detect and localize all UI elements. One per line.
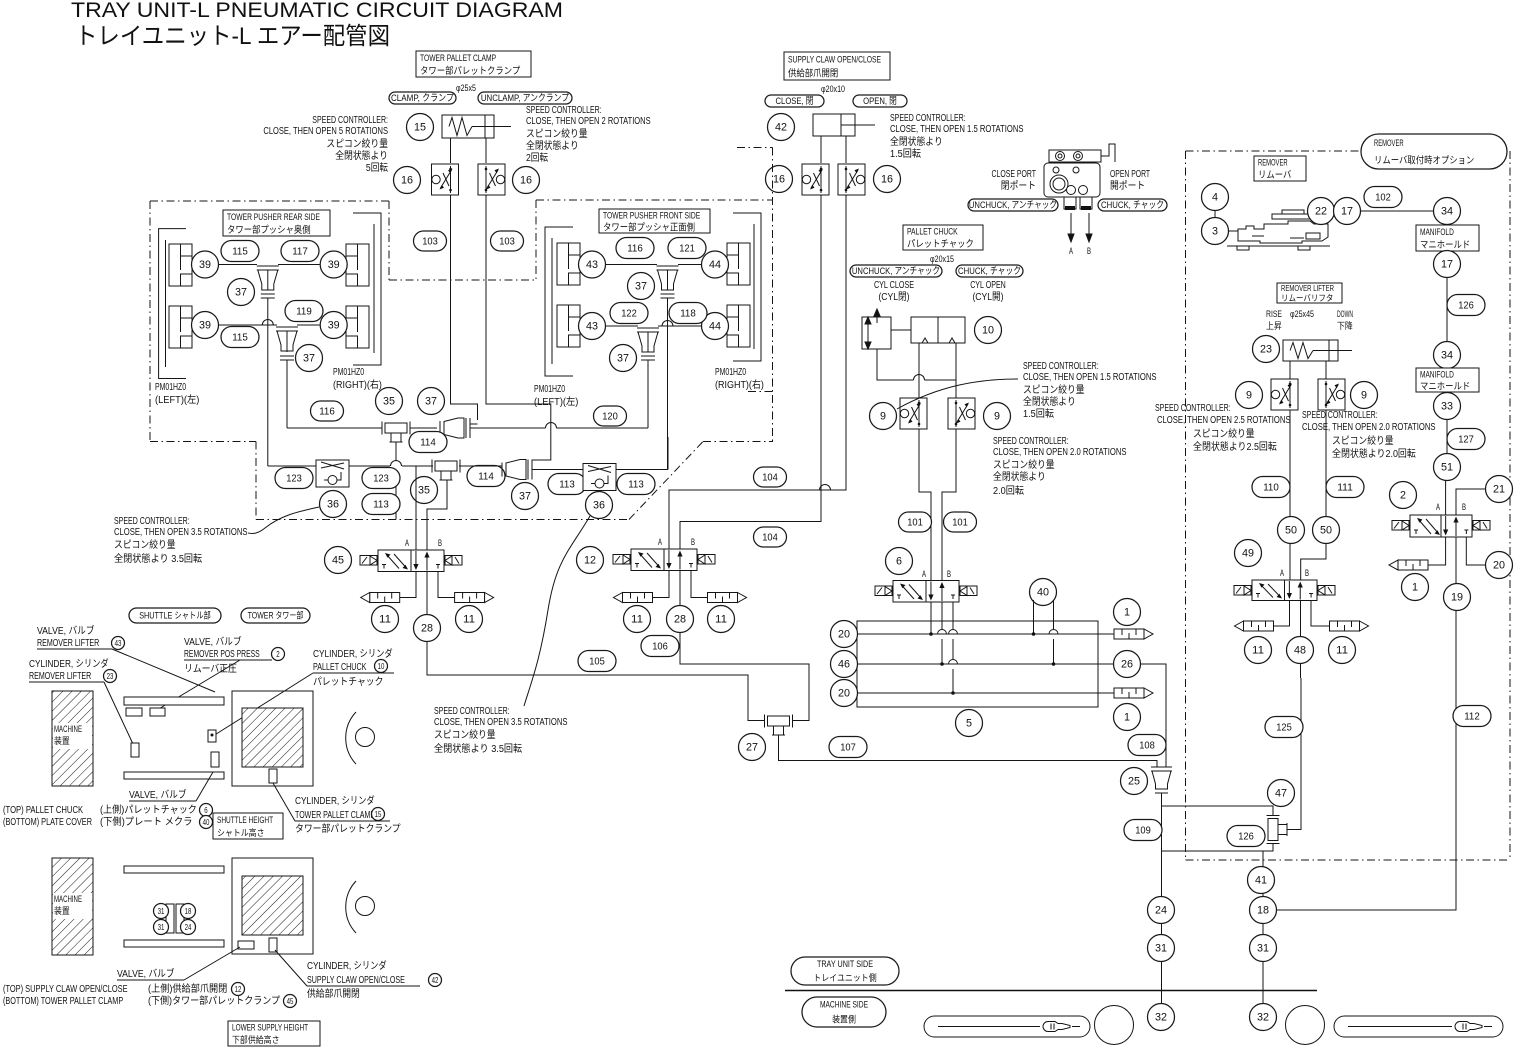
wire 40 left [1033, 600, 1035, 634]
oval 112 [1453, 706, 1491, 727]
svg-text:45: 45 [332, 555, 344, 567]
svg-text:123: 123 [286, 473, 302, 485]
svg-text:φ20x15: φ20x15 [930, 254, 954, 264]
oval 101 [899, 512, 932, 532]
shuttle bottom bar [124, 772, 224, 779]
svg-text:44: 44 [709, 259, 721, 271]
balloon 28 [667, 606, 694, 633]
rotary actuator drawing [1049, 150, 1101, 162]
svg-text:TOWER PUSHER FRONT SIDE: TOWER PUSHER FRONT SIDE [603, 210, 700, 221]
svg-text:37: 37 [617, 353, 629, 365]
svg-text:108: 108 [1139, 740, 1155, 752]
wire 3 to remover [1228, 230, 1238, 232]
balloon 32 [1250, 1004, 1277, 1031]
svg-text:9: 9 [880, 411, 886, 423]
wire 17 to 34 [1361, 210, 1434, 212]
svg-text:116: 116 [319, 406, 335, 418]
tower valve 2 [238, 941, 254, 949]
cylinder supply claw [813, 114, 855, 136]
balloon 42 [768, 114, 795, 141]
svg-text:27: 27 [746, 742, 758, 754]
svg-text:全閉状態より 3.5回転: 全閉状態より 3.5回転 [434, 742, 522, 755]
svg-text:A: A [658, 537, 662, 547]
svg-text:34: 34 [1441, 350, 1453, 362]
svg-text:REMOVER POS PRESS: REMOVER POS PRESS [184, 649, 260, 660]
svg-text:UNCHUCK, アンチャック: UNCHUCK, アンチャック [852, 266, 940, 277]
wire tee1 stub down [395, 442, 397, 461]
svg-text:43: 43 [586, 259, 598, 271]
svg-text:CHUCK, チャック: CHUCK, チャック [1101, 200, 1164, 211]
svg-text:(上側)供給部爪開閉: (上側)供給部爪開閉 [148, 982, 227, 995]
svg-text:104: 104 [762, 472, 778, 484]
svg-text:17: 17 [1341, 206, 1353, 218]
svg-text:UNCLAMP, アンクランプ: UNCLAMP, アンクランプ [481, 93, 570, 104]
svg-text:1: 1 [1124, 607, 1130, 619]
svg-text:35: 35 [418, 485, 430, 497]
balloon 11 [708, 606, 735, 633]
svg-text:OPEN PORT: OPEN PORT [1110, 169, 1150, 180]
svg-text:101: 101 [907, 517, 923, 529]
small balloon 24 [181, 920, 196, 935]
circle right [1286, 1006, 1325, 1045]
svg-text:SPEED CONTROLLER:: SPEED CONTROLLER: [1302, 410, 1378, 421]
svg-text:REMOVER: REMOVER [1258, 158, 1288, 169]
svg-text:(LEFT)(左): (LEFT)(左) [534, 395, 578, 408]
small balloon 2 [272, 648, 285, 661]
wire hop row1 [546, 423, 557, 429]
svg-text:RISE: RISE [1266, 309, 1282, 319]
balloon 17 [1434, 251, 1461, 278]
svg-text:TOWER タワー部: TOWER タワー部 [248, 610, 304, 621]
svg-text:11: 11 [463, 614, 475, 626]
svg-text:119: 119 [296, 306, 312, 318]
leader to balloon 9 [897, 379, 1018, 409]
wire manifold row3 [844, 692, 1114, 694]
dashed boundary remover [1186, 150, 1511, 152]
balloon 22 [1308, 198, 1335, 225]
speed controller 16 right [478, 164, 505, 195]
leader curve 36 right [524, 516, 590, 706]
svg-text:CYL CLOSE: CYL CLOSE [874, 280, 914, 291]
svg-text:115: 115 [232, 246, 248, 258]
oval 103 [414, 231, 447, 251]
balloon 11 [456, 606, 483, 633]
tower arc 1 [356, 728, 375, 747]
tower frame 2 [232, 858, 313, 954]
svg-text:トレイユニット-L エアー配管図: トレイユニット-L エアー配管図 [75, 23, 390, 50]
small balloon 18 [181, 904, 196, 919]
svg-text:115: 115 [232, 332, 248, 344]
tower cylinder 2 [269, 938, 277, 952]
balloon 1 [1114, 704, 1141, 731]
wire lifter right [1325, 361, 1327, 379]
oval 123 [275, 468, 313, 489]
balloon 35 [376, 388, 403, 415]
shuttle small rect 2 [150, 708, 165, 716]
wire valve2 B to 21 [1456, 489, 1486, 515]
svg-text:16: 16 [773, 174, 785, 186]
oval CLOSE [765, 95, 824, 107]
svg-text:17: 17 [1441, 259, 1453, 271]
svg-text:35: 35 [383, 396, 395, 408]
small balloon 12 [232, 983, 245, 996]
svg-text:B: B [947, 569, 951, 579]
balloon 27 [739, 734, 766, 761]
svg-text:42: 42 [432, 976, 439, 985]
svg-text:TRAY UNIT-L PNEUMATIC CIRCUIT: TRAY UNIT-L PNEUMATIC CIRCUIT DIAGRAM [71, 0, 563, 22]
svg-text:CLOSE, 閉: CLOSE, 閉 [776, 96, 814, 107]
svg-text:103: 103 [422, 236, 438, 248]
oval 118 [669, 303, 707, 324]
svg-text:31: 31 [158, 923, 165, 932]
balloon 36 [320, 491, 347, 518]
svg-text:49: 49 [1242, 548, 1254, 560]
svg-text:タワー部プッシャ正面側: タワー部プッシャ正面側 [603, 221, 695, 233]
oval 125 [1265, 717, 1303, 738]
shuttle2 top bar [124, 866, 224, 873]
svg-text:PM01HZ0: PM01HZ0 [715, 367, 746, 378]
svg-text:SPEED CONTROLLER:: SPEED CONTROLLER: [526, 105, 602, 116]
svg-text:φ25x45: φ25x45 [1290, 309, 1314, 319]
wire loop top [1162, 793, 1274, 815]
svg-text:5回転: 5回転 [366, 162, 388, 174]
tee fitting 126 [1268, 819, 1278, 841]
balloon 16 [394, 167, 421, 194]
balloon 37 [512, 483, 539, 510]
svg-text:MANIFOLD: MANIFOLD [1420, 370, 1454, 381]
cylinder tower pallet clamp [442, 115, 494, 138]
svg-text:31: 31 [158, 907, 165, 916]
wire 18 to 112 line [1277, 611, 1457, 911]
wire 101 right [942, 429, 956, 581]
balloon 51 [1434, 454, 1461, 481]
svg-text:26: 26 [1121, 659, 1133, 671]
oval 121 [668, 238, 706, 259]
oval 116 [311, 401, 344, 421]
svg-text:スピコン絞り量: スピコン絞り量 [1332, 434, 1394, 447]
svg-text:全閉状態より: 全閉状態より [890, 135, 943, 148]
svg-text:37: 37 [425, 396, 437, 408]
balloon 11 [624, 606, 651, 633]
bottom pill right [1334, 1016, 1503, 1037]
balloon 48 [1287, 637, 1314, 664]
balloon 20 [1486, 552, 1513, 579]
wye fitting front 2 [637, 328, 659, 332]
svg-text:CLOSE, THEN OPEN 2.5 ROTATIONS: CLOSE, THEN OPEN 2.5 ROTATIONS [1157, 415, 1291, 426]
oval 114 [409, 432, 447, 453]
oval UNCHUCK [850, 265, 942, 277]
svg-text:閉ポート: 閉ポート [1001, 180, 1036, 192]
svg-text:タワー部パレットクランプ: タワー部パレットクランプ [420, 65, 521, 77]
svg-text:(BOTTOM) PLATE COVER: (BOTTOM) PLATE COVER [3, 817, 92, 828]
wire hop front [662, 321, 673, 327]
oval CLAMP [389, 92, 456, 104]
wire 4-3 [1214, 210, 1216, 218]
oval 111 [1326, 477, 1364, 498]
svg-text:CYLINDER, シリンダ: CYLINDER, シリンダ [29, 657, 109, 670]
svg-text:SPEED CONTROLLER:: SPEED CONTROLLER: [1023, 361, 1099, 372]
svg-text:43: 43 [586, 321, 598, 333]
svg-text:リムーバ正圧: リムーバ正圧 [184, 663, 237, 675]
wire 41 line [1262, 851, 1264, 1029]
small balloon 43 [112, 637, 125, 650]
balloon 2 [1390, 482, 1417, 509]
arrow A [1070, 213, 1072, 238]
wire valve2 port to 20 [1466, 537, 1485, 565]
svg-text:CLOSE PORT: CLOSE PORT [992, 169, 1037, 180]
svg-text:トレイユニット側: トレイユニット側 [813, 972, 876, 983]
oval 113 [362, 494, 400, 515]
wire cyl15-left down to wye1 [451, 195, 478, 420]
svg-text:DOWN: DOWN [1337, 309, 1353, 319]
svg-text:10: 10 [378, 662, 385, 671]
wye fitting front 1 [657, 266, 679, 270]
svg-text:16: 16 [401, 175, 413, 187]
balloon 39 [320, 312, 347, 339]
svg-text:下降: 下降 [1337, 320, 1353, 331]
wire rear row1 [219, 264, 257, 266]
svg-text:20: 20 [1493, 560, 1505, 572]
wire 26 to Y fitting [1141, 664, 1167, 767]
leader curve 36 left [248, 507, 319, 534]
wire valve12 exhaust right [691, 571, 708, 598]
wire rear Y2 down [286, 360, 288, 428]
svg-text:PALLET CHUCK: PALLET CHUCK [907, 227, 958, 238]
speed controller 9 lifter right [1318, 379, 1345, 410]
svg-text:SPEED CONTROLLER:: SPEED CONTROLLER: [114, 516, 190, 527]
svg-text:SPEED CONTROLLER:: SPEED CONTROLLER: [993, 436, 1069, 447]
oval CHUCK [956, 265, 1023, 277]
svg-text:マニホールド: マニホールド [1420, 240, 1470, 251]
cylinder rear R2 [346, 306, 369, 348]
wye fitting 25 [1151, 767, 1172, 771]
svg-text:40: 40 [1037, 587, 1049, 599]
svg-text:SHUTTLE シャトル部: SHUTTLE シャトル部 [139, 610, 211, 621]
cylinder front L1 [557, 243, 580, 285]
balloon 39 [320, 251, 347, 278]
balloon 34 [1434, 198, 1461, 225]
wire manifold row2 [844, 663, 1127, 665]
bottom pill left [924, 1016, 1090, 1037]
svg-text:(LEFT)(左): (LEFT)(左) [155, 393, 199, 406]
svg-text:CHUCK, チャック: CHUCK, チャック [958, 266, 1021, 277]
svg-text:101: 101 [952, 517, 968, 529]
svg-text:VALVE, バルブ: VALVE, バルブ [117, 967, 175, 980]
svg-text:CLAMP, クランプ: CLAMP, クランプ [391, 93, 454, 104]
svg-text:9: 9 [994, 411, 1000, 423]
svg-text:シャトル高さ: シャトル高さ [217, 827, 265, 838]
balloon 47 [1268, 780, 1295, 807]
svg-text:リムーバリフタ: リムーバリフタ [1281, 293, 1333, 303]
balloon 16 [766, 166, 793, 193]
wire cyl15 right port [485, 138, 487, 163]
svg-text:126: 126 [1458, 300, 1474, 312]
svg-text:A: A [405, 538, 409, 548]
svg-text:19: 19 [1451, 592, 1463, 604]
small balloon 40 [200, 816, 213, 829]
svg-text:116: 116 [627, 243, 643, 255]
svg-text:CLOSE, THEN OPEN 2.0 ROTATIONS: CLOSE, THEN OPEN 2.0 ROTATIONS [993, 447, 1127, 458]
svg-text:9: 9 [1361, 390, 1367, 402]
bracket front right [733, 213, 761, 361]
oval REMOVER option [1361, 134, 1507, 169]
svg-text:109: 109 [1135, 825, 1151, 837]
silencer v2 [1398, 560, 1428, 570]
valve V49 [1252, 580, 1317, 601]
wire claw left [820, 136, 822, 163]
balloon 20 [831, 621, 858, 648]
separator line [785, 990, 1317, 992]
balloon 24 [1148, 897, 1175, 924]
balloon 34 [1434, 342, 1461, 369]
svg-text:CLOSE, THEN OPEN 3.5 ROTATIONS: CLOSE, THEN OPEN 3.5 ROTATIONS [114, 527, 248, 538]
svg-text:117: 117 [292, 246, 308, 258]
balloon 43 [579, 313, 606, 340]
svg-text:5: 5 [966, 718, 972, 730]
speed controller 9 left [900, 398, 927, 429]
svg-text:UNCHUCK, アンチャック: UNCHUCK, アンチャック [969, 200, 1057, 211]
svg-text:CLOSE, THEN OPEN 3.5 ROTATIONS: CLOSE, THEN OPEN 3.5 ROTATIONS [434, 717, 568, 728]
svg-text:B: B [1462, 502, 1466, 512]
svg-text:(BOTTOM) TOWER PALLET CLAMP: (BOTTOM) TOWER PALLET CLAMP [3, 996, 123, 1007]
svg-text:MACHINE: MACHINE [54, 724, 82, 734]
valve V6 [893, 581, 959, 603]
svg-text:B: B [691, 537, 695, 547]
oval UNCLAMP [478, 92, 572, 104]
wire main supply line [779, 735, 1158, 767]
balloon 9 [1351, 382, 1378, 409]
wye fitting row2 [502, 463, 506, 477]
balloon 39 [192, 312, 219, 339]
svg-text:PM01HZ0: PM01HZ0 [155, 382, 186, 393]
svg-text:REMOVER: REMOVER [1374, 138, 1404, 149]
svg-text:下部供給高さ: 下部供給高さ [232, 1034, 280, 1045]
svg-text:2回転: 2回転 [526, 152, 548, 164]
svg-text:47: 47 [1275, 788, 1287, 800]
wire 33 to 51 [1446, 420, 1448, 454]
wire valve2 19 line [1455, 537, 1457, 584]
svg-text:(TOP) SUPPLY CLAW OPEN/CLOSE: (TOP) SUPPLY CLAW OPEN/CLOSE [3, 984, 128, 995]
svg-text:CLOSE, THEN OPEN 5 ROTATIONS: CLOSE, THEN OPEN 5 ROTATIONS [263, 126, 388, 137]
dashed boundary tower pusher front [536, 199, 772, 201]
svg-text:全閉状態より: 全閉状態より [526, 139, 579, 152]
svg-text:スピコン絞り量: スピコン絞り量 [434, 728, 496, 741]
balloon 11 [1329, 637, 1356, 664]
oval 115 [221, 241, 259, 262]
silencer left v49 [1244, 621, 1274, 631]
wire claw A down to valve12 B [680, 195, 821, 549]
silencer manifold bottom [1114, 688, 1144, 698]
svg-text:104: 104 [762, 532, 778, 544]
svg-text:リムーバ取付時オプション: リムーバ取付時オプション [1374, 156, 1474, 167]
oval TRAY UNIT SIDE [791, 957, 899, 985]
svg-text:20: 20 [838, 688, 850, 700]
svg-text:全閉状態より: 全閉状態より [993, 470, 1046, 483]
svg-text:23: 23 [1260, 344, 1272, 356]
oval 101 [944, 512, 977, 532]
tee fitting row2 [435, 461, 457, 471]
svg-text:4: 4 [1212, 192, 1218, 204]
shuttle valve small [131, 743, 139, 757]
svg-text:スピコン絞り量: スピコン絞り量 [1023, 383, 1085, 396]
oval UNCHUCK top [968, 199, 1058, 211]
svg-text:34: 34 [1441, 206, 1453, 218]
svg-text:REMOVER LIFTER: REMOVER LIFTER [37, 638, 99, 649]
speed controller 9 lifter left [1271, 379, 1298, 410]
speed controller 113 [583, 464, 616, 491]
label box LOWER SUPPLY HEIGHT [228, 1021, 320, 1046]
wire valve45 exhaust right [438, 572, 455, 598]
label box SUPPLY CLAW OPEN/CLOSE [784, 52, 890, 80]
oval 126 [1227, 826, 1265, 847]
svg-text:21: 21 [1493, 484, 1505, 496]
svg-text:43: 43 [115, 639, 122, 648]
oval 127 [1447, 429, 1485, 450]
svg-text:36: 36 [327, 499, 339, 511]
svg-text:28: 28 [674, 614, 686, 626]
wire row1 horizontal [287, 427, 382, 429]
svg-text:φ20x10: φ20x10 [821, 84, 845, 94]
svg-text:113: 113 [559, 479, 575, 491]
svg-text:10: 10 [982, 325, 994, 337]
small balloon 6 [200, 804, 213, 817]
balloon 39 [192, 251, 219, 278]
svg-text:CLOSE, THEN OPEN 2.0 ROTATIONS: CLOSE, THEN OPEN 2.0 ROTATIONS [1302, 422, 1436, 433]
svg-text:パレットチャック: パレットチャック [313, 676, 383, 688]
svg-text:32: 32 [1155, 1012, 1167, 1024]
svg-text:102: 102 [1375, 192, 1391, 204]
speed controller 16 claw right [838, 164, 865, 195]
svg-text:LOWER SUPPLY HEIGHT: LOWER SUPPLY HEIGHT [232, 1023, 308, 1033]
oval 115 [221, 327, 259, 348]
oval 107 [829, 737, 867, 758]
svg-text:VALVE, バルブ: VALVE, バルブ [184, 635, 242, 648]
svg-text:A: A [1069, 246, 1073, 256]
balloon 32 [1148, 1004, 1175, 1031]
svg-text:REMOVER LIFTER: REMOVER LIFTER [29, 671, 91, 682]
svg-text:2.0回転: 2.0回転 [993, 485, 1024, 497]
svg-text:SHUTTLE HEIGHT: SHUTTLE HEIGHT [217, 815, 273, 825]
svg-text:(RIGHT)(右): (RIGHT)(右) [715, 378, 764, 391]
valve V12 [631, 549, 697, 571]
svg-text:TOWER PUSHER REAR SIDE: TOWER PUSHER REAR SIDE [227, 212, 320, 223]
svg-text:9: 9 [1246, 390, 1252, 402]
label box TOWER PUSHER FRONT SIDE [599, 209, 710, 233]
svg-text:CLOSE, THEN OPEN 2 ROTATIONS: CLOSE, THEN OPEN 2 ROTATIONS [526, 116, 651, 127]
svg-text:120: 120 [602, 411, 618, 423]
balloon 15 [407, 114, 434, 141]
oval 104 [754, 467, 787, 487]
svg-text:126: 126 [1238, 831, 1254, 843]
machine hatched block 2 [52, 858, 93, 955]
svg-text:CYLINDER, シリンダ: CYLINDER, シリンダ [307, 959, 387, 972]
wire chuck right [955, 343, 957, 398]
remover mechanism drawing [1227, 245, 1330, 247]
svg-text:SUPPLY CLAW OPEN/CLOSE: SUPPLY CLAW OPEN/CLOSE [307, 975, 405, 986]
svg-text:42: 42 [775, 122, 787, 134]
svg-text:18: 18 [1257, 905, 1269, 917]
balloon 37 [228, 279, 255, 306]
wire valve45 exhaust left [400, 572, 416, 598]
small balloon 23 [104, 670, 117, 683]
balloon 1 [1402, 574, 1429, 601]
svg-text:TRAY UNIT SIDE: TRAY UNIT SIDE [817, 959, 873, 969]
svg-text:CLOSE, THEN OPEN 1.5 ROTATIONS: CLOSE, THEN OPEN 1.5 ROTATIONS [890, 124, 1024, 135]
svg-text:12: 12 [584, 555, 596, 567]
oval 120 [594, 406, 627, 426]
svg-text:2: 2 [276, 650, 280, 659]
svg-text:28: 28 [421, 623, 433, 635]
